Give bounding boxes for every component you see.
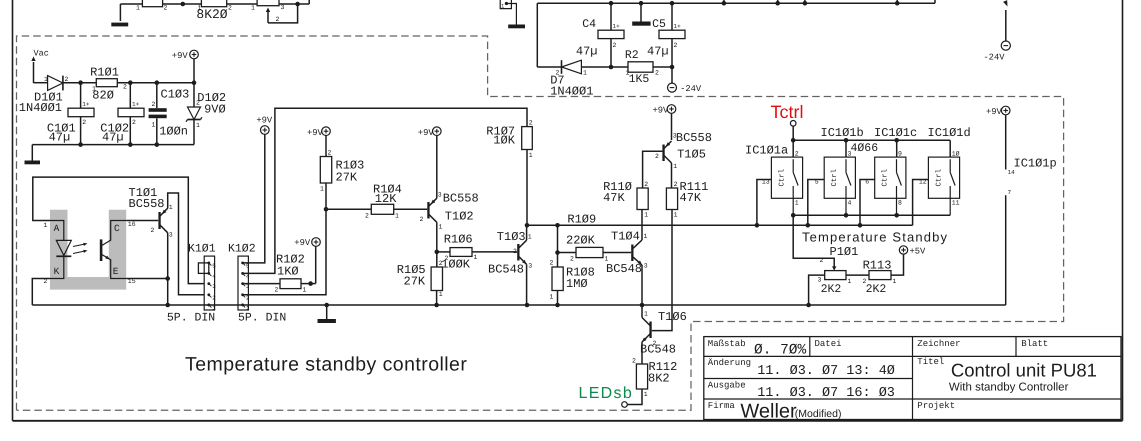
svg-text:4: 4 <box>848 200 852 207</box>
svg-text:1: 1 <box>893 278 897 285</box>
svg-text:12K: 12K <box>375 192 397 206</box>
wire T106 emitter to R112 <box>641 342 643 364</box>
wire T103 collector <box>526 225 528 240</box>
svg-text:2: 2 <box>445 255 449 262</box>
svg-text:Blatt: Blatt <box>1021 339 1048 349</box>
junction dot T101 collector at rail <box>165 303 170 308</box>
junction dot C102 top <box>128 80 133 85</box>
svg-text:3: 3 <box>673 133 677 140</box>
resistor R111 47K <box>666 188 677 210</box>
svg-text:R1Ø1: R1Ø1 <box>90 66 119 80</box>
transistor T103 BC548 <box>517 240 526 264</box>
svg-text:1: 1 <box>198 5 202 12</box>
svg-text:1: 1 <box>44 222 48 229</box>
svg-text:2: 2 <box>513 248 517 255</box>
transistor T105 BC558 <box>662 141 671 163</box>
junction dot D7/C4 <box>609 65 614 70</box>
svg-text:1MØ: 1MØ <box>566 277 588 291</box>
svg-text:T1Ø4: T1Ø4 <box>611 230 640 244</box>
diode D7 1N4001 <box>537 60 611 74</box>
svg-text:1N4ØØ1: 1N4ØØ1 <box>19 101 62 115</box>
wire T101 emitter to K101 pin2 <box>168 193 209 295</box>
junction dot ground tap <box>324 303 329 308</box>
capacitor C4 47u <box>610 3 612 30</box>
svg-text:1+: 1+ <box>132 101 140 108</box>
svg-text:1: 1 <box>136 5 140 12</box>
resistor R106 100K <box>450 248 472 257</box>
svg-text:C4: C4 <box>582 18 596 31</box>
wire P101 left to rail <box>809 275 825 305</box>
diode D101 1N4001 <box>48 76 63 91</box>
svg-text:R113: R113 <box>863 259 892 273</box>
resistor R108 1M0 <box>552 267 563 291</box>
svg-text:+9V: +9V <box>172 51 189 61</box>
junction dot Tctrl wire <box>791 138 796 143</box>
junction dot c top <box>894 138 899 143</box>
svg-text:C5: C5 <box>652 18 666 31</box>
wire K102 pin4 long run to R107 <box>243 108 527 273</box>
svg-text:1: 1 <box>644 212 648 219</box>
svg-text:2: 2 <box>674 181 678 188</box>
svg-text:3: 3 <box>528 263 532 270</box>
svg-text:IC1Ø1a: IC1Ø1a <box>745 144 788 158</box>
svg-text:1: 1 <box>251 5 255 12</box>
ground symbol small top <box>508 25 525 29</box>
svg-text:Temperature Standby: Temperature Standby <box>802 230 948 245</box>
wire IC101a pin1 to P101 wiper <box>793 215 834 266</box>
ground symbol bus <box>632 22 650 26</box>
svg-text:Ctrl: Ctrl <box>934 169 943 187</box>
wire T104 emitter to rail <box>641 265 643 305</box>
svg-text:1: 1 <box>644 233 648 240</box>
capacitor C5 47u <box>671 3 673 30</box>
svg-text:1: 1 <box>303 287 307 294</box>
junction dot T102 collector / R106 <box>435 250 440 255</box>
junction dot K102 pin1 rail <box>241 304 244 307</box>
transistor T106 BC548 <box>642 318 652 343</box>
svg-text:IC1Ø1c: IC1Ø1c <box>874 126 917 140</box>
wire 220K to T104 base <box>603 252 631 254</box>
wire pot right up <box>308 0 310 4</box>
ground symbol top-left <box>111 23 128 27</box>
junction dot T104/T106 at rail <box>640 303 645 308</box>
svg-text:3: 3 <box>438 192 442 199</box>
svg-text:LEDsb: LEDsb <box>579 385 634 402</box>
svg-text:P1Ø1: P1Ø1 <box>830 245 859 259</box>
junction dot R108 at rail <box>555 303 560 308</box>
resistor R104 12K <box>371 204 393 214</box>
resistor R102 1K0 <box>280 279 301 289</box>
potentiometer (cut off) <box>257 0 279 6</box>
svg-text:2: 2 <box>275 287 279 294</box>
resistor 8K20 (cut off) <box>201 0 226 7</box>
svg-text:2K2: 2K2 <box>866 283 887 296</box>
svg-text:47µ: 47µ <box>49 131 71 145</box>
capacitor stub top (cut off) with ground <box>500 0 516 25</box>
svg-text:R1Ø9: R1Ø9 <box>567 213 596 227</box>
svg-text:Temperature standby controller: Temperature standby controller <box>185 353 467 375</box>
svg-text:27K: 27K <box>336 171 358 185</box>
svg-text:2: 2 <box>276 16 280 23</box>
wire Vac to D101 <box>34 82 48 84</box>
svg-text:1: 1 <box>644 391 648 398</box>
capacitor C103 100n <box>156 83 158 109</box>
junction dot C101 top <box>78 80 83 85</box>
svg-text:1: 1 <box>44 76 48 83</box>
resistor R2 1K5 <box>628 62 653 72</box>
resistor R110 47K <box>637 188 648 210</box>
wire 220K left stub <box>558 252 577 254</box>
svg-text:1: 1 <box>626 70 630 77</box>
svg-text:T1Ø5: T1Ø5 <box>677 148 706 162</box>
svg-text:5: 5 <box>212 263 216 270</box>
svg-text:2: 2 <box>655 153 659 160</box>
transistor T102 BC558 <box>427 198 437 222</box>
wire to ground top-left <box>119 4 121 21</box>
svg-text:IC1Ø1b: IC1Ø1b <box>821 126 864 140</box>
Vac arrow <box>33 62 35 83</box>
junction dot a bottom <box>791 213 796 218</box>
svg-text:2: 2 <box>151 227 155 234</box>
svg-text:2: 2 <box>328 150 332 157</box>
analog switch IC101a <box>762 151 803 216</box>
optocoupler body (gray U shape) <box>50 210 126 290</box>
svg-text:1: 1 <box>395 213 399 220</box>
svg-text:2: 2 <box>132 119 136 126</box>
svg-text:4: 4 <box>212 273 216 280</box>
wire R101 to +9V corner <box>117 82 194 84</box>
svg-text:2: 2 <box>550 260 554 267</box>
junction dot C4 bus <box>609 1 614 6</box>
svg-text:47µ: 47µ <box>102 131 124 145</box>
svg-text:K1Ø1: K1Ø1 <box>188 243 216 256</box>
svg-text:Ctrl: Ctrl <box>881 169 890 187</box>
wire R109 control line <box>527 224 913 226</box>
junction dot R105 at rail <box>434 303 439 308</box>
wire K102 pin3 to R102 <box>243 283 280 285</box>
wire C4 node to R2 <box>611 66 628 68</box>
svg-text:5P. DIN: 5P. DIN <box>238 312 286 325</box>
-24V circle symbol <box>1001 41 1010 50</box>
svg-text:1: 1 <box>674 212 678 219</box>
resistor R109 220K <box>576 247 603 257</box>
resistor R107 10K <box>522 127 533 150</box>
svg-text:+9V: +9V <box>986 107 1003 117</box>
wire R108 to rail <box>557 291 559 306</box>
+9V supply symbol (PSU) <box>190 50 199 59</box>
wire opto cathode to ground rail <box>32 279 50 306</box>
svg-text:2: 2 <box>82 119 86 126</box>
svg-text:5P. DIN: 5P. DIN <box>167 312 215 325</box>
svg-text:7: 7 <box>1008 189 1012 196</box>
svg-text:1: 1 <box>439 224 443 231</box>
wire R111 to T106 base <box>652 210 672 331</box>
svg-text:2: 2 <box>644 181 648 188</box>
svg-text:Maßstab: Maßstab <box>708 339 746 349</box>
connector K101 5P.DIN <box>188 243 216 312</box>
svg-text:BC548: BC548 <box>488 263 524 277</box>
svg-text:T1Ø2: T1Ø2 <box>445 210 474 224</box>
wire R106 to T103 base <box>472 251 517 253</box>
wire D101 to R101 with taps <box>63 82 96 84</box>
K101 pin5-pin4 jumper <box>198 263 208 274</box>
svg-text:2: 2 <box>152 101 156 108</box>
+9V supply symbol (T105) <box>667 105 676 114</box>
+9V supply symbol (R102) <box>312 238 321 247</box>
IC101p power pin symbol <box>986 106 1057 305</box>
svg-text:1: 1 <box>169 204 173 211</box>
wire R105 to rail <box>436 291 438 306</box>
+5V supply symbol <box>899 246 907 254</box>
svg-text:47K: 47K <box>680 191 702 205</box>
analog switch IC101c <box>865 151 906 216</box>
svg-text:2: 2 <box>123 84 127 91</box>
svg-text:With standby Controller: With standby Controller <box>949 382 1069 394</box>
svg-text:1: 1 <box>196 122 200 129</box>
wire R102 to +9V <box>301 283 316 285</box>
svg-text:2: 2 <box>795 151 799 158</box>
junction dot T103 emitter at rail <box>525 303 530 308</box>
svg-text:1: 1 <box>529 152 533 159</box>
junction dot C103 top <box>155 80 160 85</box>
wire R104 to T102 base <box>394 208 428 210</box>
svg-text:Ø. 7Ø%: Ø. 7Ø% <box>754 343 807 359</box>
wire R103 to R104 <box>325 183 327 209</box>
svg-text:C1Ø3: C1Ø3 <box>161 88 190 102</box>
svg-text:1ØK: 1ØK <box>493 134 515 148</box>
svg-text:1Ø: 1Ø <box>952 151 960 158</box>
junction dot K101 pin1 rail <box>207 304 210 307</box>
potentiometer wiper arrow <box>267 11 269 23</box>
wire to -24V symbol <box>671 67 673 83</box>
svg-text:1N4ØØ1: 1N4ØØ1 <box>550 85 593 99</box>
junction dot P101 at rail <box>806 303 811 308</box>
svg-text:1+: 1+ <box>674 23 682 30</box>
wire to PSU ground <box>31 145 33 161</box>
zener diode D102 9V0 <box>186 83 202 145</box>
svg-text:1+: 1+ <box>82 101 90 108</box>
svg-text:(Modified): (Modified) <box>795 408 842 420</box>
svg-text:+9V: +9V <box>294 238 311 248</box>
wire control tops <box>793 139 950 141</box>
svg-text:47µ: 47µ <box>647 45 669 59</box>
svg-text:2: 2 <box>632 358 636 365</box>
svg-text:3: 3 <box>281 4 285 11</box>
wire K102 pin5 to +9V <box>243 134 265 263</box>
junction dot R103 bottom node <box>324 207 329 212</box>
-24V supply symbol <box>668 83 677 92</box>
svg-text:Titel: Titel <box>917 357 944 367</box>
junction dot c bottom <box>894 213 899 218</box>
resistor R105 27K <box>431 267 442 291</box>
svg-text:1: 1 <box>474 254 478 261</box>
svg-text:1: 1 <box>673 163 677 170</box>
svg-text:Ausgabe: Ausgabe <box>708 381 746 391</box>
optocoupler phototransistor <box>100 221 127 279</box>
svg-text:8: 8 <box>898 200 902 207</box>
wire top-left horizontal <box>120 3 142 5</box>
transistor T101 BC558 <box>158 208 167 233</box>
svg-text:2: 2 <box>420 216 424 223</box>
svg-text:K1Ø2: K1Ø2 <box>228 243 256 256</box>
svg-text:1: 1 <box>583 70 587 77</box>
-24V arrow symbol top right <box>1003 0 1007 41</box>
wire Tctrl to switches <box>792 126 794 157</box>
wire T105 collector to R111 <box>671 163 673 188</box>
junction dot <box>295 2 300 7</box>
svg-text:1: 1 <box>528 234 532 241</box>
svg-text:Änderung: Änderung <box>708 357 751 368</box>
dashed standby-controller boundary outline <box>17 36 1064 410</box>
svg-text:9: 9 <box>898 151 902 158</box>
svg-text:1: 1 <box>848 278 852 285</box>
wire R2 to C5 node <box>653 66 672 68</box>
resistor R113 2K2 <box>869 271 891 280</box>
svg-text:1: 1 <box>152 122 156 129</box>
ground symbol PSU <box>25 161 41 165</box>
svg-text:1: 1 <box>92 86 96 93</box>
title block frame <box>704 337 1121 420</box>
svg-text:11. Ø3. Ø7 16: Ø3: 11. Ø3. Ø7 16: Ø3 <box>757 386 895 401</box>
svg-text:+9V: +9V <box>307 128 324 138</box>
svg-text:BC548: BC548 <box>640 343 676 357</box>
svg-text:Weller: Weller <box>740 401 797 423</box>
svg-text:C: C <box>114 223 120 234</box>
svg-text:BC548: BC548 <box>606 262 642 276</box>
junction dot 220K tap <box>555 223 560 228</box>
svg-text:BC558: BC558 <box>443 192 479 206</box>
junction dot b bottom <box>844 213 849 218</box>
svg-text:IC1Ø1d: IC1Ø1d <box>928 126 971 140</box>
junction dot bus tap 3 <box>803 1 808 6</box>
resistor R103 27K <box>320 157 331 184</box>
svg-text:A: A <box>54 223 60 234</box>
svg-text:-24V: -24V <box>680 84 702 94</box>
svg-text:Zeichner: Zeichner <box>917 339 960 349</box>
svg-text:1: 1 <box>644 311 648 318</box>
wire T105 base to R110 <box>643 151 663 188</box>
svg-text:47µ: 47µ <box>576 45 598 59</box>
capacitor C102 47u <box>129 83 131 109</box>
junction dot 220K left <box>555 250 560 255</box>
wire K102 pin2 up to R103 node <box>243 209 326 294</box>
svg-text:Projekt: Projekt <box>917 401 955 411</box>
svg-text:2: 2 <box>863 278 867 285</box>
svg-text:Ctrl: Ctrl <box>777 169 786 187</box>
junction dot opto emitter <box>165 276 170 281</box>
wire opto anode loop (K101 pin3 to opto pin1) <box>33 177 209 284</box>
svg-text:2: 2 <box>365 213 369 220</box>
wire T103 emitter to rail <box>526 264 528 305</box>
svg-text:2K2: 2K2 <box>821 283 842 296</box>
svg-text:11: 11 <box>952 200 960 207</box>
junction dot C5 bus <box>670 1 675 6</box>
junction dot b top <box>844 138 849 143</box>
wire opto collector to T101 base <box>127 220 159 222</box>
transistor T104 BC548 <box>631 240 642 265</box>
wire R112 to LEDsb pad <box>627 389 642 405</box>
svg-text:Tctrl: Tctrl <box>771 102 804 122</box>
wire +9V to T105 emitter <box>671 113 673 140</box>
+9V supply symbol (K102) <box>261 126 270 135</box>
wire T102 emitter to +9V <box>436 136 438 199</box>
svg-text:2: 2 <box>439 260 443 267</box>
wire +9V to R103 <box>325 136 327 157</box>
svg-text:1KØ: 1KØ <box>277 265 299 279</box>
+9V supply symbol (T102) <box>433 127 442 136</box>
svg-text:Vac: Vac <box>34 49 49 59</box>
svg-text:4Ø66: 4Ø66 <box>851 142 879 155</box>
ground stub on bus <box>640 3 642 21</box>
wire T101 collector to ground rail <box>167 233 169 305</box>
svg-text:2: 2 <box>164 5 168 12</box>
svg-text:Ctrl: Ctrl <box>830 169 839 187</box>
svg-text:2: 2 <box>655 70 659 77</box>
resistor (top, cut off) <box>142 0 162 7</box>
junction dot bus tap 1 <box>722 1 727 6</box>
junction dot R107/T103/R109 <box>525 223 530 228</box>
svg-text:-24V: -24V <box>983 53 1005 63</box>
wire R106 left stub <box>437 251 450 253</box>
wire down to 220K and R108 <box>557 225 559 267</box>
svg-text:T1Ø3: T1Ø3 <box>497 230 526 244</box>
svg-text:16: 16 <box>128 221 136 228</box>
svg-text:1: 1 <box>320 186 324 193</box>
wire ctrl pins to R109 line <box>757 180 772 226</box>
junction dot R2/C5 <box>670 65 675 70</box>
ground symbol main <box>326 305 328 319</box>
analog switch IC101b <box>815 151 856 216</box>
svg-text:3: 3 <box>212 283 216 290</box>
svg-text:22ØK: 22ØK <box>566 234 596 248</box>
svg-text:E: E <box>113 266 119 277</box>
wire R107 to R109 node <box>526 150 528 226</box>
svg-text:2: 2 <box>556 70 560 77</box>
junction dot bus tap 2 <box>775 1 780 6</box>
resistor R112 8K2 <box>636 364 647 389</box>
svg-text:2: 2 <box>613 42 617 49</box>
wire P101 to R113 <box>846 274 869 276</box>
svg-text:Firma: Firma <box>708 401 736 411</box>
potentiometer P101 2K2 <box>825 271 846 280</box>
svg-text:2: 2 <box>212 294 216 301</box>
junction dot bus tap 4 <box>895 1 900 6</box>
wire T104 collector to R110 <box>641 210 643 241</box>
svg-text:BC558: BC558 <box>129 197 165 211</box>
svg-text:+9V: +9V <box>653 106 670 116</box>
svg-text:Control unit PU81: Control unit PU81 <box>951 360 1097 381</box>
svg-text:IC1Ø1p: IC1Ø1p <box>1014 157 1057 171</box>
junction dot R102 right <box>308 281 313 286</box>
svg-text:R1Ø6: R1Ø6 <box>444 233 473 247</box>
svg-text:47K: 47K <box>603 191 625 205</box>
wire PSU bottom rail <box>32 144 194 146</box>
svg-text:+9V: +9V <box>418 128 435 138</box>
wire switch outputs bottom <box>793 214 950 216</box>
svg-text:3: 3 <box>818 277 822 284</box>
resistor R101 820 <box>96 79 117 87</box>
analog switch IC101d <box>919 151 960 216</box>
svg-text:1K5: 1K5 <box>629 73 650 86</box>
svg-text:BC558: BC558 <box>676 131 712 145</box>
svg-text:3: 3 <box>644 263 648 270</box>
svg-text:1+: 1+ <box>613 23 621 30</box>
svg-text:2: 2 <box>674 42 678 49</box>
wire +9V down <box>193 59 195 83</box>
svg-text:3: 3 <box>169 232 173 239</box>
wire T106 collector to rail <box>641 305 643 318</box>
Tctrl pad circle <box>790 121 796 127</box>
